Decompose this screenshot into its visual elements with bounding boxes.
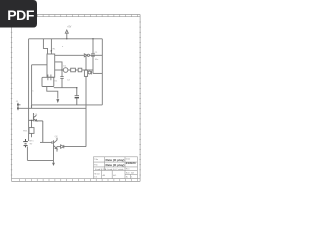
- connector J1: [17, 103, 21, 110]
- svg-text:PDF: PDF: [7, 7, 35, 23]
- svg-text:Kicad E.D.A. kicad 4.0.2 stab: Kicad E.D.A. kicad 4.0.2 stable: [95, 168, 124, 171]
- svg-text:24/4/24: 24/4/24: [126, 161, 136, 165]
- wire top rail: [29, 38, 103, 40]
- power flag +5V: [65, 30, 68, 39]
- wire rail A to rail B joint: [30, 105, 32, 108]
- diode D3: [57, 145, 86, 148]
- wire right rail: [101, 39, 103, 105]
- wire U1 right pin to cap branch: [55, 62, 62, 70]
- svg-text:+5V: +5V: [67, 26, 72, 28]
- wire to U1 left pin: [32, 64, 47, 66]
- wire stub from top rail to U1 pin 1: [43, 39, 51, 54]
- capacitor C4 on lower branch: [88, 71, 102, 75]
- resistor R4 (vertical): [84, 55, 87, 146]
- trimmer RV1: [29, 121, 34, 138]
- IC U1 (coil box): [47, 54, 55, 77]
- title block text: [94, 157, 136, 178]
- relay K1 (lower box): [42, 77, 54, 86]
- title block: [94, 157, 138, 179]
- wire relay pin down: [47, 87, 58, 99]
- transistor Q2: [40, 138, 57, 161]
- capacitor C3 (vertical): [54, 70, 77, 88]
- frame ruler ticks: [11, 15, 141, 182]
- wire inner-left vertical: [31, 65, 33, 109]
- wire left drop to lower cluster: [27, 108, 53, 160]
- ground below Q2: [53, 160, 55, 162]
- svg-text:Rele (O play): Rele (O play): [106, 158, 125, 162]
- diode D2 with cathode circle: [55, 54, 103, 57]
- wire stub from top rail to U1 pin 2: [50, 39, 52, 54]
- transistor Q1: [29, 113, 43, 142]
- PDF badge: [0, 0, 37, 28]
- capacitor C2 (polarized, to rail A): [75, 88, 79, 105]
- svg-text:Sheet: Sheet: [94, 172, 100, 175]
- svg-text:in: in: [32, 90, 34, 92]
- relay coil pins: [48, 75, 51, 81]
- wire left rail: [28, 39, 30, 109]
- wire bottom rail A: [31, 104, 102, 106]
- wires: main loop: [21, 39, 103, 109]
- resistor R3: [78, 68, 82, 72]
- svg-text:Sc: Sc: [126, 177, 128, 179]
- ground arrow to rail A: [56, 99, 59, 103]
- junction dots: [31, 38, 94, 121]
- resistor R2: [71, 68, 76, 72]
- capacitor C1: [91, 39, 95, 74]
- wire mid rail: [55, 69, 93, 71]
- wire bottom rail B: [21, 107, 87, 109]
- LED D1: [63, 68, 68, 73]
- battery BT1: [23, 139, 28, 147]
- sheet frame outer border: [12, 15, 141, 182]
- svg-text:Rele (O play): Rele (O play): [106, 163, 125, 167]
- sheet frame inner ruler lines: [12, 17, 141, 179]
